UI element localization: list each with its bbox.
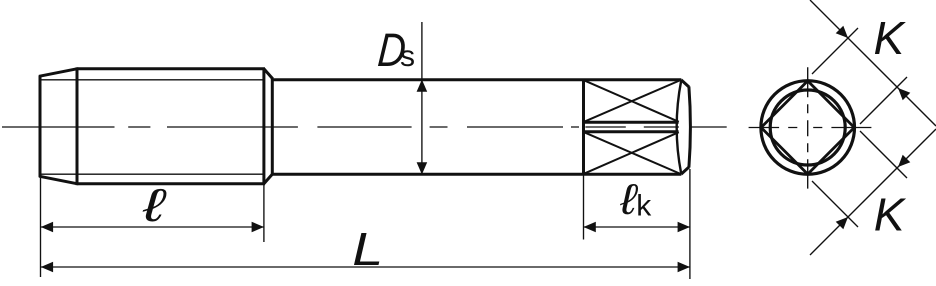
Ds top arrow [417,80,428,92]
L left arrow [41,262,53,273]
svg-text:K: K [874,12,907,64]
Ds dimension line vertical [421,22,423,174]
K top extension line through E corner [860,77,907,124]
thread major diameter bottom line [77,182,265,185]
end view square (diamond) [761,81,854,174]
end view outer circle (shank dia) [761,81,855,175]
thread left end vertical edge [39,76,42,178]
L dimension line [41,266,690,268]
top X diagonal 2 [584,81,680,122]
svg-text:k: k [636,190,652,223]
tap thread section outline [39,67,681,185]
svg-text:K: K [874,189,907,241]
square drive section [584,79,691,175]
l dimension line [41,226,264,228]
lk dimension line [584,226,690,228]
square end right edge [689,87,691,168]
K top arrow at E flat [898,88,910,100]
K bottom arrow at E flat [898,155,910,167]
L right arrow [678,262,690,273]
K bottom arrow at S flat [836,217,848,229]
thread end extension line [263,184,265,242]
bottom X diagonal 1 [584,132,680,173]
K top extension line through N corner [812,28,858,74]
arrowheads [41,80,690,273]
left extension line (l and L) [40,178,42,277]
end view vertical centerline [807,67,809,188]
main axis centerline [2,126,727,128]
lk right arrow [678,222,690,233]
square section left edge vertical [582,79,585,175]
square flats X marks [584,80,680,173]
end view inner circle [770,90,845,165]
thread minor diameter upper thin line [40,79,264,81]
square mid band lower line [584,130,679,133]
thread left bottom chamfer [39,176,78,184]
thread major diameter top line [77,67,265,70]
l left arrow [41,222,53,233]
dimension extension lines [41,22,690,279]
square end bottom chamfer [681,167,689,174]
tap end extension line [689,169,691,279]
shank bottom line [272,173,681,176]
thread-shank top chamfer [264,69,273,79]
Ds bottom arrow [417,162,428,174]
lk left arrow [584,222,596,233]
K bottom extension line through E corner [860,131,907,178]
K top dimension line [810,0,936,126]
l right arrow [252,222,264,233]
square end top chamfer [681,80,689,87]
thread minor diameter lower thin line [40,173,264,175]
shank junction vertical [271,78,274,174]
thread-shank bottom chamfer [264,174,273,184]
svg-text:L: L [352,224,383,275]
end view horizontal centerline [749,127,872,129]
bottom X diagonal 2 [584,132,679,174]
thread minor diameter thin lines [40,80,264,174]
top X diagonal 1 [584,80,679,122]
K bottom dimension line [810,129,936,255]
thread right end vertical [262,68,265,185]
K top arrow at N flat [836,26,848,38]
thread chamfer boundary vertical [76,67,79,185]
square start extension line [583,176,585,240]
shank top line [272,78,681,81]
thread left top chamfer [39,69,78,77]
svg-text:ℓ: ℓ [142,179,167,230]
K bottom extension line through S corner [812,181,858,227]
svg-text:s: s [400,40,415,73]
square mid band upper line [584,121,679,124]
square flat end concave arc [677,81,681,174]
